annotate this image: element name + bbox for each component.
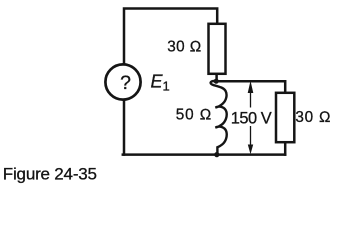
source E1 (circle with ?) [105,64,140,99]
svg-text:Figure 24-35: Figure 24-35 [3,165,97,184]
voltage arrow 150 V (double-headed) [250,90,252,146]
resistor R1 (30 ohm, top) [209,24,226,74]
wire: node A to right branch (horizontal run and stub into R3) [216,81,285,92]
resistor R3 (30 ohm, right) [276,93,294,142]
svg-text:150 V: 150 V [231,110,272,128]
svg-text:?: ? [120,72,131,94]
wire: top loop (left riser, top run, stub into R1) [124,9,217,63]
svg-text:1: 1 [163,79,170,94]
wire: stub R3 bottom to bottom run [284,142,287,155]
svg-text:50 Ω: 50 Ω [176,107,212,124]
node B junction dot [214,152,219,157]
node A junction dot [214,79,219,84]
svg-text:30 Ω: 30 Ω [167,38,201,55]
inductor L1 (50 ohm) [211,81,227,154]
wire: left riser below source to bottom-left corner [123,101,126,155]
wire: bottom run [123,153,285,156]
wire: stub R1 bottom to node A [215,74,218,81]
svg-text:30 Ω: 30 Ω [295,109,331,126]
